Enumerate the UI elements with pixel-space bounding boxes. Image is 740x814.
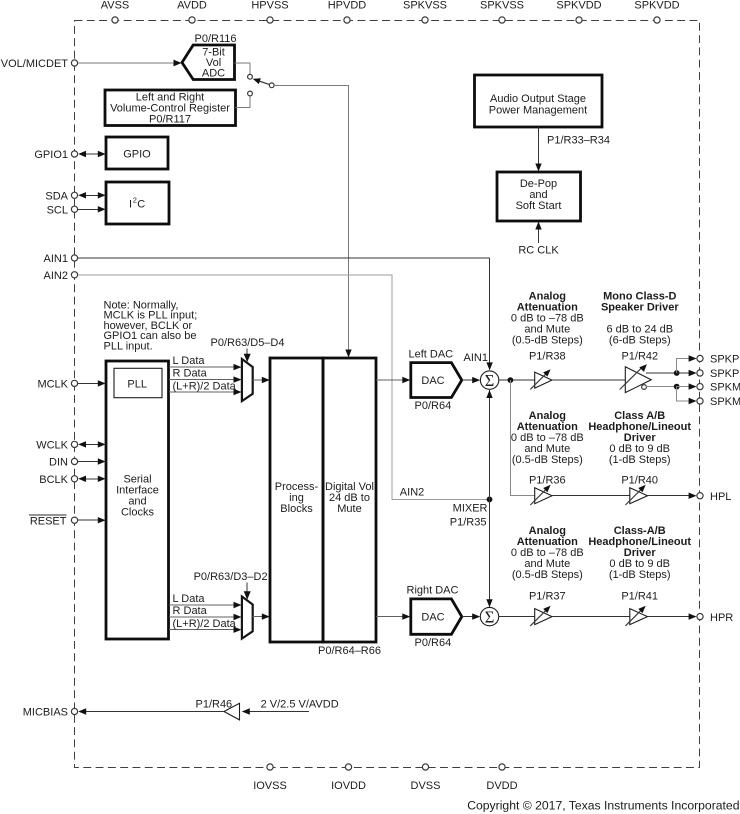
arrowhead up into sigma1 bottom xyxy=(486,390,492,398)
amplifier A5: HPR attenuator xyxy=(530,606,552,626)
chip boundary dashed border xyxy=(75,21,700,768)
text Analog Attenuation (speaker) xyxy=(511,291,584,347)
wire power management to De-Pop xyxy=(538,127,540,165)
arrowhead up into De-Pop bottom xyxy=(535,222,541,230)
arrowhead into ADC xyxy=(174,60,182,67)
svg-text:BCLK: BCLK xyxy=(39,474,68,486)
svg-text:Right DAC: Right DAC xyxy=(407,585,459,597)
svg-text:AIN2: AIN2 xyxy=(400,486,424,498)
wire AIN1 horizontal xyxy=(78,257,490,259)
svg-text:SPKVSS: SPKVSS xyxy=(403,0,447,12)
svg-text:P0/R63/D3–D2: P0/R63/D3–D2 xyxy=(194,571,268,583)
value label P0/R64 (right DAC) xyxy=(415,637,452,649)
mux M1 (left DAC data select) xyxy=(242,359,253,401)
svg-text:AVSS: AVSS xyxy=(101,0,130,12)
wire speaker driver lower output xyxy=(645,386,676,388)
svg-text:L Data: L Data xyxy=(173,355,206,367)
value label P1/R33&#8211;R34 xyxy=(547,135,610,147)
arrowhead AIN1 into sigma1 xyxy=(486,362,492,370)
svg-text:(6-dB Steps): (6-dB Steps) xyxy=(609,335,671,347)
wire WCLK bidirectional arrow xyxy=(78,441,105,447)
node junction row1 xyxy=(508,377,514,383)
pin AVSS (top) xyxy=(101,0,130,23)
text Mono Class-D Speaker Driver xyxy=(601,291,679,347)
wire DIN arrow into serial block xyxy=(78,458,106,464)
svg-text:SPKVDD: SPKVDD xyxy=(556,0,601,12)
value label P1/R41 xyxy=(621,591,658,603)
pin IOVDD (bottom) xyxy=(331,764,366,792)
pin HPVDD (top) xyxy=(328,0,367,23)
value label P0/R64 (left DAC) xyxy=(415,400,452,412)
value label P0/R63/D3&#8211;D2 xyxy=(194,571,268,583)
value label P1/R38 xyxy=(529,350,566,362)
switch contact A (circle) xyxy=(248,74,253,79)
value label P1/R46 xyxy=(195,699,232,711)
svg-text:R Data: R Data xyxy=(173,368,208,380)
wire sigma1 output to speaker attenuator xyxy=(499,379,535,381)
value label P1/R37 xyxy=(529,591,566,603)
svg-text:AVDD: AVDD xyxy=(177,0,207,12)
svg-text:DVDD: DVDD xyxy=(486,780,517,792)
svg-text:P1/R46: P1/R46 xyxy=(195,699,232,711)
wire L Data (top) xyxy=(169,355,242,370)
pin DIN (left) xyxy=(49,457,78,469)
svg-text:(L+R)/2 Data: (L+R)/2 Data xyxy=(173,380,237,392)
svg-text:P1/R38: P1/R38 xyxy=(529,350,566,362)
svg-text:PLL input.: PLL input. xyxy=(104,340,153,352)
wire left DAC to sigma1 xyxy=(462,377,480,383)
wire SCL arrow into I2C xyxy=(78,206,106,212)
copyright notice xyxy=(467,799,739,813)
svg-text:P1/R42: P1/R42 xyxy=(621,350,658,362)
value label P1/R42 xyxy=(621,350,658,362)
note text about PLL input xyxy=(104,300,198,353)
pin SPKVSS (top, first) xyxy=(403,0,447,23)
pin WCLK (left) xyxy=(36,439,77,451)
pin MCLK (left) xyxy=(37,378,77,390)
wire switch common to Digital Vol control xyxy=(274,85,348,350)
svg-text:Σ: Σ xyxy=(485,371,495,390)
wire (L+R)/2 Data (bottom) xyxy=(169,618,242,633)
wire register output to switch contact B xyxy=(236,96,251,107)
svg-text:Mute: Mute xyxy=(337,503,361,515)
wire HPR attenuator to driver xyxy=(552,616,630,618)
svg-text:Left DAC: Left DAC xyxy=(409,348,454,360)
mixer sigma2 (right) xyxy=(480,607,498,626)
svg-text:HPVSS: HPVSS xyxy=(251,0,288,12)
svg-text:(0.5-dB Steps): (0.5-dB Steps) xyxy=(512,569,583,581)
svg-text:P0/R63/D5–D4: P0/R63/D5–D4 xyxy=(211,337,285,349)
svg-text:C: C xyxy=(137,199,145,211)
svg-text:DAC: DAC xyxy=(421,612,444,624)
svg-text:AIN2: AIN2 xyxy=(44,270,68,282)
svg-text:Blocks: Blocks xyxy=(280,503,313,515)
wire L Data (bottom) xyxy=(169,593,242,608)
svg-text:P1/R35: P1/R35 xyxy=(450,517,487,529)
block PLL xyxy=(114,368,162,397)
wire sigma2 output to HPR attenuator xyxy=(499,616,535,618)
wire select into mux M2 xyxy=(244,583,251,600)
label Right DAC xyxy=(407,585,459,597)
value label P1/R40 xyxy=(621,475,658,487)
pin HPR (right) xyxy=(697,612,733,624)
svg-text:MIXER: MIXER xyxy=(453,503,488,515)
text Analog Attenuation (HPR) xyxy=(511,525,584,581)
svg-text:IOVSS: IOVSS xyxy=(253,780,287,792)
wire processing to right DAC xyxy=(376,613,410,619)
text Class A/B Headphone/Lineout Driver (HPL) xyxy=(588,410,691,466)
wire select into mux M1 xyxy=(244,349,251,363)
svg-text:MCLK: MCLK xyxy=(37,378,68,390)
svg-text:GPIO1: GPIO1 xyxy=(34,149,68,161)
pin SPKP (second) xyxy=(697,368,739,380)
svg-text:ADC: ADC xyxy=(202,68,225,80)
wire HPR driver to pin xyxy=(648,613,697,619)
svg-text:Clocks: Clocks xyxy=(121,507,155,519)
amplifier A7: MICBIAS buffer (points left) xyxy=(224,703,240,720)
wire junction row1 down to HPL attenuator xyxy=(510,380,534,496)
svg-text:SPKP: SPKP xyxy=(710,354,739,366)
pin DVDD (bottom) xyxy=(486,764,517,792)
svg-text:Speaker Driver: Speaker Driver xyxy=(601,302,679,314)
block Serial Interface and Clocks xyxy=(106,361,169,639)
net label RC CLK xyxy=(518,245,559,257)
label Left DAC xyxy=(409,348,454,360)
svg-text:RC CLK: RC CLK xyxy=(518,245,559,257)
pin AIN2 (left) xyxy=(44,270,78,282)
DAC U3: Left DAC pentagon xyxy=(411,363,462,398)
pin RESET (left, active-low overline) xyxy=(29,515,78,527)
amplifier A3: HPL attenuator xyxy=(530,485,552,505)
arrowhead into Digital Vol block xyxy=(345,350,351,358)
wire RESET arrow into serial block xyxy=(78,517,106,523)
svg-text:Copyright © 2017, Texas Instru: Copyright © 2017, Texas Instruments Inco… xyxy=(467,799,739,813)
wire R Data (bottom) xyxy=(169,605,242,620)
svg-text:P1/R40: P1/R40 xyxy=(621,475,658,487)
arrowhead down into sigma2 top xyxy=(486,599,492,607)
svg-text:P1/R36: P1/R36 xyxy=(529,475,566,487)
amplifier A6: HPR class A/B driver xyxy=(625,606,647,626)
pin SCL (left) xyxy=(47,204,78,216)
value label P0/R116 xyxy=(195,33,237,45)
svg-text:RESET: RESET xyxy=(30,515,67,527)
net label AIN1 (at sigma1) xyxy=(464,352,488,364)
svg-text:SDA: SDA xyxy=(45,190,68,202)
svg-text:(0.5-dB Steps): (0.5-dB Steps) xyxy=(512,454,583,466)
value label P0/R63/D5&#8211;D4 xyxy=(211,337,285,349)
svg-text:AIN1: AIN1 xyxy=(44,253,68,265)
wire SDA bidirectional arrow xyxy=(78,192,105,198)
I2C block xyxy=(106,182,169,224)
block De-Pop and Soft Start xyxy=(497,172,581,221)
wire MCLK arrow into serial block xyxy=(78,380,106,386)
pin BCLK (left) xyxy=(39,474,77,486)
svg-text:SPKVSS: SPKVSS xyxy=(480,0,524,12)
wire mux M1 output to processing blocks xyxy=(253,377,270,383)
svg-text:P0/R117: P0/R117 xyxy=(149,113,191,125)
value label P1/R36 xyxy=(529,475,566,487)
svg-text:P1/R37: P1/R37 xyxy=(529,591,566,603)
wire to SPKP pin 1 (upper tap) xyxy=(677,355,697,373)
node junction SPKP xyxy=(674,370,680,376)
pin DVSS (bottom) xyxy=(411,764,441,792)
ADC U1: 7-Bit Vol ADC pentagon xyxy=(182,45,235,80)
svg-text:HPL: HPL xyxy=(710,491,731,503)
svg-text:L Data: L Data xyxy=(173,593,206,605)
bubble on speaker driver inverted output xyxy=(642,385,647,390)
svg-text:AIN1: AIN1 xyxy=(464,352,488,364)
svg-text:VOL/MICDET: VOL/MICDET xyxy=(1,58,69,70)
text Class-A/B Headphone/Lineout Driver (HPR) xyxy=(588,525,691,581)
svg-text:SPKVDD: SPKVDD xyxy=(634,0,679,12)
svg-text:I: I xyxy=(129,199,132,211)
block Digital Vol 24 dB to Mute xyxy=(323,358,376,642)
svg-text:P1/R33–R34: P1/R33–R34 xyxy=(547,135,610,147)
pin SPKVSS (top, second) xyxy=(480,0,524,23)
wire ADC output to switch contact A xyxy=(235,63,251,74)
amplifier A2: mono class-D speaker driver xyxy=(620,364,652,392)
svg-text:R Data: R Data xyxy=(173,605,208,617)
pin SDA (left) xyxy=(45,190,77,202)
switch SW1 blade with arrow xyxy=(253,78,270,84)
wire AIN2 to mixer column xyxy=(78,275,487,500)
pin SPKP (first) xyxy=(697,354,739,366)
svg-text:SCL: SCL xyxy=(47,204,68,216)
DAC U4: Right DAC pentagon xyxy=(411,599,462,634)
svg-text:P0/R64: P0/R64 xyxy=(415,637,452,649)
mux M2 (right DAC data select) xyxy=(242,597,253,639)
wire mixer vertical sigma1 to sigma2 xyxy=(489,390,491,607)
net label 2 V/2.5 V/AVDD xyxy=(261,699,339,711)
svg-text:P0/R64–R66: P0/R64–R66 xyxy=(318,645,381,657)
wire attenuator to speaker driver xyxy=(552,379,625,381)
svg-text:P0/R116: P0/R116 xyxy=(195,33,237,45)
wire processing to left DAC xyxy=(376,377,410,383)
svg-text:(0.5-dB Steps): (0.5-dB Steps) xyxy=(512,335,583,347)
pin HPVSS (top) xyxy=(251,0,288,23)
amplifier A1: speaker attenuator xyxy=(530,369,552,389)
wire right DAC to sigma2 xyxy=(462,613,480,619)
svg-text:Audio Output Stage: Audio Output Stage xyxy=(490,93,586,105)
value label P0/R64&#8211;R66 xyxy=(318,645,381,657)
wire to SPKP pin 2 xyxy=(677,370,697,376)
wire HPL driver to pin xyxy=(648,493,697,499)
block Processing Blocks xyxy=(270,358,323,642)
svg-text:(1-dB Steps): (1-dB Steps) xyxy=(609,454,671,466)
svg-text:Soft Start: Soft Start xyxy=(516,200,562,212)
node junction SPKM xyxy=(674,384,680,390)
svg-text:DVSS: DVSS xyxy=(411,780,441,792)
svg-text:Σ: Σ xyxy=(485,607,495,626)
wire VOL/MICDET to ADC xyxy=(78,62,175,64)
wire HPL attenuator to driver xyxy=(552,495,630,497)
switch common (circle) xyxy=(269,83,274,88)
pin SPKM (second) xyxy=(697,396,740,408)
node AIN2 junction on mixer line xyxy=(487,497,493,503)
pin IOVSS (bottom) xyxy=(253,764,287,792)
svg-text:GPIO: GPIO xyxy=(123,149,151,161)
svg-text:WCLK: WCLK xyxy=(36,439,68,451)
svg-text:MICBIAS: MICBIAS xyxy=(23,707,68,719)
GPIO block xyxy=(106,137,168,169)
svg-text:P0/R64: P0/R64 xyxy=(415,400,452,412)
wire to SPKM pin 2 (lower tap) xyxy=(677,387,697,405)
svg-text:P1/R41: P1/R41 xyxy=(621,591,658,603)
wire mux M2 output to processing blocks xyxy=(253,613,270,619)
svg-text:Power Management: Power Management xyxy=(489,105,587,117)
pin SPKM (first) xyxy=(697,382,740,394)
svg-text:HPVDD: HPVDD xyxy=(328,0,367,12)
pin SPKVDD (top, first) xyxy=(556,0,601,23)
wire speaker driver upper output xyxy=(646,372,677,374)
pin VOL/MICDET (left) xyxy=(1,58,78,70)
pin AIN1 (left) xyxy=(44,253,78,265)
svg-text:SPKM: SPKM xyxy=(710,396,740,408)
text Analog Attenuation (HPL) xyxy=(511,410,584,466)
wire 2V/2.5V/AVDD source into micbias amp xyxy=(242,708,309,714)
pin GPIO1 (left) xyxy=(34,149,77,161)
switch contact B (circle) xyxy=(248,91,253,96)
svg-text:(L+R)/2 Data: (L+R)/2 Data xyxy=(173,618,237,630)
svg-text:SPKP: SPKP xyxy=(710,368,739,380)
amplifier A4: HPL class A/B driver xyxy=(625,485,647,505)
wire to SPKM pin 1 xyxy=(677,383,697,389)
wire AIN1 vertical into left mixer xyxy=(489,258,491,365)
wire BCLK bidirectional arrow xyxy=(78,476,105,482)
svg-text:(1-dB Steps): (1-dB Steps) xyxy=(609,569,671,581)
svg-text:PLL: PLL xyxy=(127,379,147,391)
mixer sigma1 (left) xyxy=(480,371,498,390)
svg-text:IOVDD: IOVDD xyxy=(331,780,366,792)
svg-text:DIN: DIN xyxy=(49,457,68,469)
pin SPKVDD (top, second) xyxy=(634,0,679,23)
pin MICBIAS (left) xyxy=(23,707,78,719)
wire micbias amp to MICBIAS pin xyxy=(78,708,224,714)
wire GPIO1 bidirectional arrow xyxy=(78,151,105,157)
net label AIN2 (at mixer) xyxy=(400,486,424,498)
svg-text:2 V/2.5 V/AVDD: 2 V/2.5 V/AVDD xyxy=(261,699,339,711)
wire RC CLK into De-Pop xyxy=(538,227,540,243)
block Audio Output Stage Power Management xyxy=(475,75,603,127)
wire (L+R)/2 Data (top) xyxy=(169,380,242,395)
svg-text:HPR: HPR xyxy=(710,612,733,624)
wire R Data (top) xyxy=(169,368,242,383)
register U2: Left and Right Volume-Control Register xyxy=(105,90,236,126)
pin AVDD (top) xyxy=(177,0,207,23)
svg-text:SPKM: SPKM xyxy=(710,382,740,394)
arrowhead into De-Pop xyxy=(535,164,541,172)
pin HPL (right) xyxy=(697,491,732,503)
label MIXER P1/R35 xyxy=(450,503,488,529)
svg-text:DAC: DAC xyxy=(421,375,444,387)
